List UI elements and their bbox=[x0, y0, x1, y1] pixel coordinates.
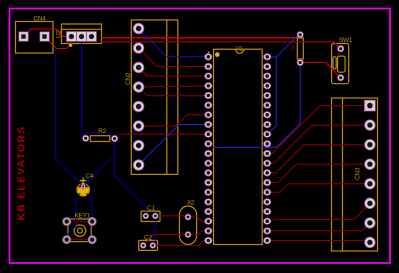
svg-text:SW1: SW1 bbox=[339, 37, 353, 44]
svg-text:C4: C4 bbox=[86, 173, 94, 180]
svg-text:KEY1: KEY1 bbox=[75, 212, 91, 219]
svg-text:X2: X2 bbox=[187, 199, 195, 206]
svg-text:KB ELEVATORS: KB ELEVATORS bbox=[16, 126, 28, 221]
svg-text:CN2: CN2 bbox=[125, 72, 132, 85]
svg-text:U2: U2 bbox=[56, 30, 63, 38]
svg-text:C1: C1 bbox=[147, 205, 155, 212]
svg-text:CN3: CN3 bbox=[354, 167, 361, 180]
svg-text:R2: R2 bbox=[98, 128, 106, 135]
svg-text:DC: DC bbox=[291, 43, 297, 50]
svg-text:C2: C2 bbox=[144, 234, 152, 241]
svg-text:CN4: CN4 bbox=[34, 16, 47, 23]
svg-text:U1: U1 bbox=[236, 46, 244, 52]
